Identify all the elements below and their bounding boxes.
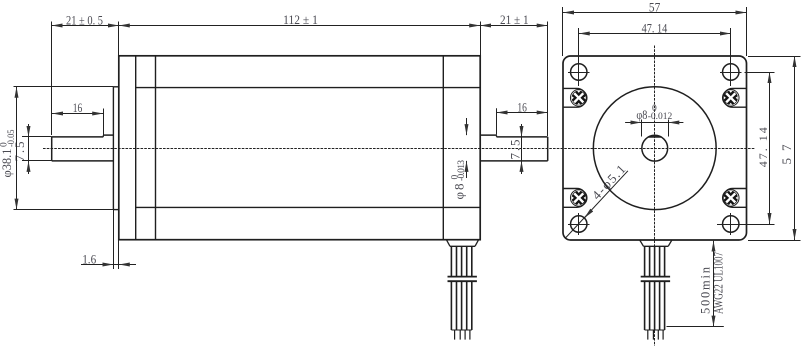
svg-text:-0.012: -0.012 xyxy=(648,112,673,122)
svg-text:47. 14: 47. 14 xyxy=(642,21,668,36)
screw recess bottom-right xyxy=(722,189,746,208)
mounting hole bottom-right xyxy=(717,213,745,235)
svg-text:φ38.1: φ38.1 xyxy=(0,149,14,178)
svg-text:1.6: 1.6 xyxy=(82,252,96,267)
svg-text:47. 14: 47. 14 xyxy=(756,127,770,167)
dimension 7.5 front shaft xyxy=(12,124,52,174)
svg-text:4-φ5.1: 4-φ5.1 xyxy=(589,162,629,203)
svg-text:112 ± 1: 112 ± 1 xyxy=(283,12,318,27)
shaft circle xyxy=(642,135,668,161)
svg-text:500min: 500min xyxy=(699,266,713,314)
motor body side view xyxy=(119,56,480,240)
dimension 57 right xyxy=(748,56,801,241)
mounting hole top-left xyxy=(568,64,590,80)
svg-text:-0.013: -0.013 xyxy=(457,160,467,181)
lead wires side view xyxy=(446,240,478,330)
front view flange plate xyxy=(563,56,747,240)
mounting hole bottom-left xyxy=(568,213,590,235)
dimension 21±0.5 xyxy=(52,12,119,135)
front cap inner line xyxy=(155,56,157,240)
svg-text:57: 57 xyxy=(779,144,794,165)
svg-text:16: 16 xyxy=(73,100,83,115)
dimension 500min wire length xyxy=(667,241,726,327)
svg-text:7.5: 7.5 xyxy=(508,140,523,160)
front shaft xyxy=(52,135,114,161)
front end cap line xyxy=(135,56,137,240)
dimension 57 top xyxy=(563,0,747,56)
screw recess bottom-left xyxy=(563,189,587,208)
leader 4-φ5.1 xyxy=(565,162,628,239)
screw recess top-left xyxy=(563,88,587,107)
dimension φ8-0.012 front view xyxy=(625,104,683,137)
dimension φ8-0.013 rear shaft xyxy=(451,118,467,200)
svg-text:16: 16 xyxy=(517,100,527,115)
dimension 47.14 right xyxy=(745,72,775,225)
screw recess top-right xyxy=(722,88,746,107)
centerline vertical front view xyxy=(654,46,656,347)
pilot boss xyxy=(113,87,118,210)
wire ends side view xyxy=(455,330,470,340)
dimension φ38.1 xyxy=(0,87,113,210)
cable tie side view xyxy=(447,277,477,282)
svg-text:21 ± 1: 21 ± 1 xyxy=(500,12,529,27)
dimension 7.5 rear shaft xyxy=(508,124,523,174)
dimension 16 rear shaft xyxy=(497,100,548,135)
lead wires front view xyxy=(640,240,672,330)
rear shaft xyxy=(480,135,548,161)
dimension 47.14 top xyxy=(579,21,731,86)
body chamfer top line xyxy=(136,87,481,89)
svg-text:φ8: φ8 xyxy=(452,184,467,200)
svg-text:AWG22 UL1007: AWG22 UL1007 xyxy=(712,252,726,314)
dimension 21±1 xyxy=(480,12,548,136)
body chamfer bottom line xyxy=(136,206,481,208)
wire ends front view xyxy=(648,330,663,340)
mounting hole top-right xyxy=(720,64,742,80)
pilot boss circle xyxy=(593,87,716,210)
dimension 16 front shaft xyxy=(52,100,104,137)
svg-text:-0.05: -0.05 xyxy=(7,129,17,147)
dimension 112±1 xyxy=(119,12,481,56)
svg-text:21 ± 0. 5: 21 ± 0. 5 xyxy=(66,12,103,27)
svg-text:φ8: φ8 xyxy=(636,107,647,122)
dimension 1.6 xyxy=(81,210,136,269)
svg-text:57: 57 xyxy=(649,0,661,14)
centerline shaft axis xyxy=(43,148,755,150)
cable tie front view xyxy=(640,277,670,282)
rear end cap line xyxy=(442,56,444,240)
